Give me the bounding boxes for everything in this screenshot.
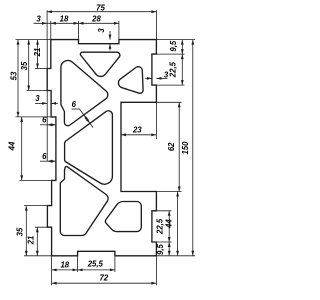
dimension 9,5 right bottom [156,242,171,256]
dimension 6 left upper [40,116,56,127]
pocket P2 upper-right triangle [118,67,143,94]
dimension 35 bottom-left [15,206,27,256]
svg-text:3: 3 [36,14,41,23]
svg-text:22,5: 22,5 [169,61,178,78]
dimension 150 overall height [181,40,194,256]
svg-text:21: 21 [27,236,36,246]
part outline (75 x 150 plate, stepped edges, edge notches) [47,40,156,256]
dimension 22,5 right top [169,54,184,85]
dimension 44 left [7,117,23,180]
svg-text:3: 3 [164,71,169,80]
dimension 21 left top [33,40,42,69]
dimension 3 top notch depth [97,28,111,51]
extension lines bottom [52,256,157,285]
dimension 9,5 right top [169,40,184,55]
dimension chain 3 / 18 / 28 top [34,14,119,24]
extension lines left [16,40,56,256]
dimension 23 right recess [121,126,156,137]
dimension 6 left lower [40,152,56,163]
svg-text:28: 28 [91,14,101,23]
svg-text:75: 75 [96,4,105,13]
dimension 62 right recess height [167,102,180,191]
pocket P5 lower-left pentagon [60,166,108,235]
svg-text:9,5: 9,5 [156,244,165,256]
svg-text:62: 62 [167,142,176,151]
svg-text:6: 6 [42,116,47,125]
dimension 22,5 right bottom [156,211,171,242]
dimension 35 left top [20,40,30,91]
svg-text:3: 3 [97,28,106,33]
pocket P6 lower-right pentagon [105,202,141,232]
svg-text:150: 150 [181,141,190,155]
svg-text:23: 23 [132,126,142,135]
svg-text:25,5: 25,5 [87,260,104,269]
svg-text:44: 44 [7,141,16,151]
dimension chain 18 / 25,5 bottom [52,260,115,272]
svg-text:35: 35 [20,61,29,70]
pocket P4 center quad [65,111,113,184]
svg-text:3: 3 [35,94,40,103]
svg-text:53: 53 [10,71,19,80]
pocket P3 left triangle [61,60,108,125]
svg-text:35: 35 [15,227,24,236]
extension lines right [152,40,195,256]
dimension 3 left edge step [35,94,58,105]
leader 6 rib thickness [72,100,94,127]
svg-text:21: 21 [33,48,42,58]
svg-text:18: 18 [60,260,69,269]
dimension 3 right notch depth [145,71,169,80]
svg-text:22,5: 22,5 [156,218,165,235]
svg-text:72: 72 [99,274,108,283]
svg-text:9,5: 9,5 [169,40,178,52]
dimension 44 right bottom [165,192,179,256]
dimension 53 left [10,40,20,117]
svg-text:6: 6 [42,152,47,161]
dimension 75 top [47,4,156,14]
svg-text:18: 18 [60,14,69,23]
dimension 21 bottom-left [27,227,39,256]
pocket P1 top triangle [80,52,119,76]
svg-text:6: 6 [72,100,77,109]
dimension 72 bottom [52,274,157,285]
extension lines top [47,10,156,39]
